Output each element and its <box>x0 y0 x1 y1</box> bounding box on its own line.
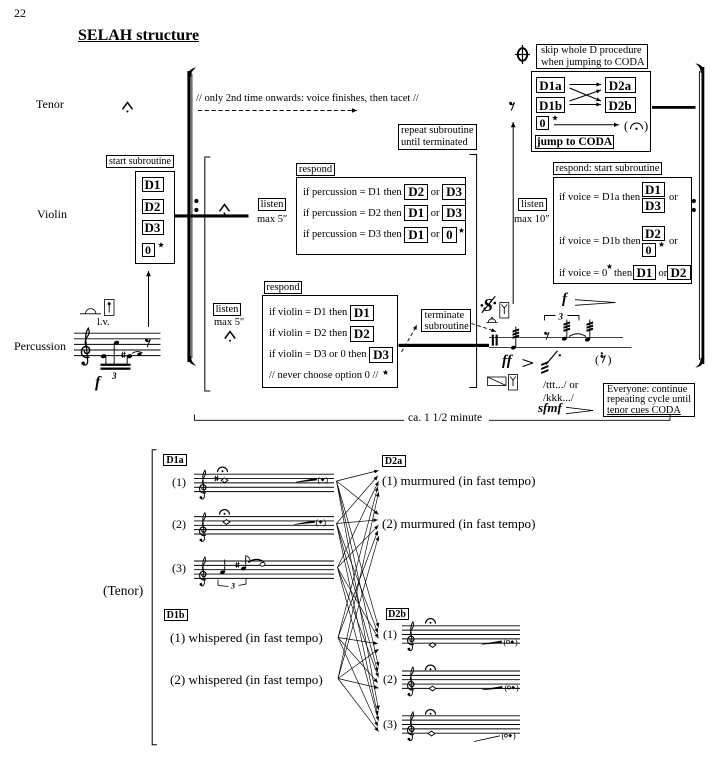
staff label 2b1 <box>383 627 397 642</box>
label Violin <box>37 207 67 222</box>
lv label <box>97 317 110 328</box>
arrow percussion to start-subroutine box <box>146 271 151 327</box>
max 5 label 2 <box>214 317 244 328</box>
svg-text:): ) <box>325 475 328 485</box>
dashed arrow to terminate box <box>402 325 418 352</box>
svg-text:3: 3 <box>558 312 564 322</box>
option D2 box <box>142 199 164 214</box>
respond label 2 <box>264 281 302 294</box>
listen marcato (violin listens) <box>225 332 235 342</box>
tremolo note 2 <box>561 320 570 342</box>
long arrow up to jump box <box>511 122 516 304</box>
sfmf decrescendo <box>566 407 593 413</box>
parenthesised eighth rest <box>595 352 612 366</box>
whispered 2 <box>170 672 323 688</box>
terminate subroutine box <box>421 309 471 332</box>
start subroutine box <box>106 155 174 168</box>
jump decision box <box>531 71 651 152</box>
left winged repeat barline <box>187 67 196 365</box>
beater box pictogram 2 <box>509 375 518 391</box>
respond start subroutine label <box>553 162 662 175</box>
fermata D2b-1 <box>426 619 436 624</box>
percussion staff <box>74 333 161 355</box>
option 0 coda box <box>536 116 549 130</box>
damp pictogram <box>488 377 507 386</box>
slashed tremolo cue note <box>541 351 561 374</box>
staff D2b-1 <box>402 626 520 643</box>
harmonic D1a-2 <box>223 520 230 525</box>
svg-text:(: ( <box>595 353 599 367</box>
sharp D1a-1 <box>215 475 219 481</box>
staff label 1a1 <box>172 475 186 490</box>
arrow D1a to D2b <box>570 88 602 101</box>
percussion eighth rest <box>145 339 150 347</box>
svg-text:(: ( <box>624 119 628 133</box>
note D2b-2 <box>429 686 436 691</box>
treble clef D2b-2 <box>408 667 414 696</box>
respond label 1 <box>296 163 335 176</box>
percussion treble clef <box>81 328 89 365</box>
treble clef D2b-3 <box>408 712 414 741</box>
option D1b box <box>536 97 565 113</box>
staff D1a-1 <box>194 474 334 491</box>
percussion opening notes <box>100 340 142 370</box>
svg-text:): ) <box>515 637 518 647</box>
dynamic ff <box>502 353 512 370</box>
tenor bottom label <box>103 583 143 599</box>
option D2b box <box>605 97 636 113</box>
arrow D1b to D2b <box>570 103 602 107</box>
fermata in parens <box>624 119 648 133</box>
eighth rest on staff <box>544 332 549 340</box>
staff D1a-3 <box>194 561 334 578</box>
D2b label box <box>386 608 409 620</box>
niente D2b-1 <box>504 637 518 647</box>
svg-text:(: ( <box>504 637 507 647</box>
beater box pictogram 1 <box>500 303 509 319</box>
option 0 box <box>142 243 155 257</box>
mallet box pictogram <box>105 300 115 316</box>
svg-text:(: ( <box>316 517 319 527</box>
svg-text:(: ( <box>502 731 505 741</box>
tenor note <box>196 93 419 104</box>
label Tenor <box>36 97 64 112</box>
repeat dots (right) <box>692 199 696 212</box>
voice respond box <box>553 177 692 284</box>
triplet bracket D1a-3 <box>218 578 246 591</box>
staff label 1a2 <box>172 517 186 532</box>
max 10 label <box>514 214 550 225</box>
treble clef D2b-1 <box>408 622 414 651</box>
sfmf <box>538 400 562 416</box>
svg-text:3: 3 <box>230 582 235 591</box>
D1a label box <box>163 454 187 466</box>
whispered 1 <box>170 630 323 646</box>
staff label 1a3 <box>172 561 186 576</box>
svg-text:(: ( <box>505 683 508 693</box>
title <box>78 27 199 45</box>
note D2b-3 <box>428 731 435 736</box>
murmured 2 <box>382 516 535 532</box>
star after 0 <box>156 240 166 250</box>
coda symbol <box>515 45 530 64</box>
hairpin D2b-3 <box>474 736 500 742</box>
niente D2b-2 <box>505 683 519 693</box>
repeat subroutine box <box>398 124 477 150</box>
murmured 1 <box>382 473 535 489</box>
fermata D2b-3 <box>426 710 436 715</box>
listen box 1 <box>258 198 286 211</box>
percussion thick line <box>399 344 490 347</box>
tenor marcato accent <box>123 103 133 113</box>
duration bracket <box>195 415 671 421</box>
fermata D2b-2 <box>426 665 436 670</box>
phoneme text <box>543 379 578 391</box>
tenor line right segment <box>652 106 696 109</box>
tenor dashed arrow <box>198 108 357 112</box>
notes D1a-3 <box>220 556 266 575</box>
small cup symbol <box>486 317 497 322</box>
arrow D1a to D2a <box>570 83 602 87</box>
svg-text:): ) <box>516 683 519 693</box>
dashed arrow from terminate box <box>472 324 497 333</box>
niente D1a-1 <box>318 475 329 485</box>
connection web D1 to D2 <box>337 470 380 732</box>
accent after ff <box>523 360 534 367</box>
phoneme text 2 <box>543 392 574 404</box>
fermata D1a-1 <box>218 467 228 472</box>
arrow 0 to fermata <box>554 123 619 127</box>
triplet bracket <box>545 312 580 322</box>
svg-text:): ) <box>323 517 326 527</box>
everyone box <box>603 383 695 417</box>
duration label <box>408 412 482 424</box>
right square bracket <box>470 155 477 388</box>
tremolo note 3 <box>584 320 593 343</box>
two-line rhythm staff <box>489 338 632 348</box>
staff D2b-2 <box>402 671 520 688</box>
violin respond box <box>262 295 398 388</box>
double stroke sign <box>492 335 498 346</box>
staff label 2b3 <box>383 717 397 732</box>
violin marcato accent <box>220 205 230 215</box>
decrescendo hairpin f <box>575 300 616 306</box>
treble clef D1a-1 <box>200 470 206 499</box>
jump to CODA box <box>535 135 614 149</box>
hairpin D2b-2 <box>482 686 502 690</box>
staff D2b-3 <box>402 716 520 733</box>
tremolo note 1 <box>510 327 519 351</box>
niente D1a-2 <box>316 517 327 527</box>
listen box 3 <box>518 198 547 211</box>
niente D2b-3 <box>502 731 516 741</box>
dynamic f right <box>562 291 567 308</box>
violin thick line <box>175 214 249 217</box>
tie <box>569 334 586 337</box>
svg-text:(: ( <box>318 475 321 485</box>
staff label 2b2 <box>383 672 397 687</box>
treble clef D1a-2 <box>200 513 206 542</box>
svg-text:): ) <box>608 353 612 367</box>
D1b label box <box>164 609 188 621</box>
svg-text:): ) <box>644 119 648 133</box>
star after 0 coda <box>550 113 560 123</box>
percussion respond box <box>296 177 466 255</box>
eighth rest cue <box>509 102 514 111</box>
triplet 3 left <box>112 371 117 381</box>
harmonic D1a-1 <box>221 478 228 483</box>
repeat dots (left) <box>194 199 198 212</box>
option D3 box <box>142 220 164 235</box>
option D1a box <box>536 77 565 93</box>
max 5 label 1 <box>257 214 287 225</box>
note D2b-1 <box>429 643 436 648</box>
arrow D1b to D2a <box>570 90 602 101</box>
option D1 box <box>142 177 164 192</box>
left square bracket <box>205 157 211 391</box>
D2a label box <box>382 455 406 467</box>
svg-text:): ) <box>513 731 516 741</box>
treble clef D1a-3 <box>200 557 206 586</box>
staff D1a-2 <box>194 517 334 534</box>
page number <box>14 6 26 21</box>
hairpin D1a-1 <box>296 478 317 482</box>
segno <box>481 295 497 315</box>
label Percussion <box>14 339 66 354</box>
fermata D1a-2 <box>220 510 230 515</box>
dynamic f left <box>95 374 100 392</box>
right winged repeat barline <box>695 63 704 367</box>
skip coda box <box>536 44 648 69</box>
violin options box <box>135 171 175 264</box>
bell pictogram <box>80 309 101 314</box>
tenor options bracket <box>152 450 157 745</box>
listen box 2 <box>213 303 241 316</box>
hairpin D1a-2 <box>294 521 315 525</box>
option D2a box <box>605 77 636 93</box>
hairpin D2b-1 <box>482 641 502 645</box>
